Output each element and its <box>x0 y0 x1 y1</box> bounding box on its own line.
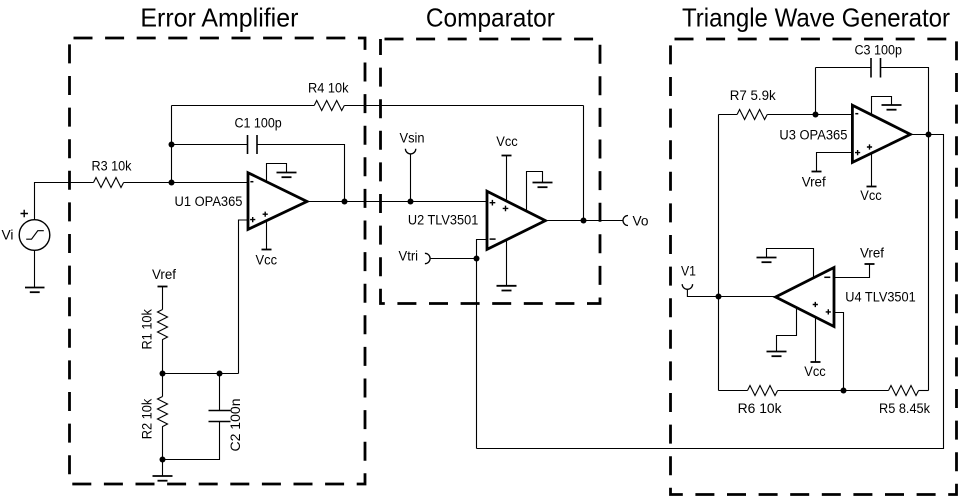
wire U3 V+ pin <box>871 152 873 186</box>
wire U4 V- pin <box>777 307 797 351</box>
svg-text:Vcc: Vcc <box>256 252 278 267</box>
svg-text:R7 5.9k: R7 5.9k <box>730 88 776 103</box>
wire U2 V+ pin <box>506 156 508 202</box>
wire Vtri feedback (triangle generator to comparator) <box>477 135 944 449</box>
comparator U4 TLV3501 (mirrored) <box>776 268 834 327</box>
wire R5 left to node <box>844 390 889 392</box>
terminal Vref (divider top) <box>158 286 168 288</box>
svg-text:Vref: Vref <box>152 267 176 282</box>
ground (divider bottom) <box>153 460 173 481</box>
svg-text:Vsin: Vsin <box>400 130 425 145</box>
resistor R1 <box>158 310 168 342</box>
ground (U2 negative supply) <box>497 286 517 291</box>
wire U3 non-inverting input to Vref <box>817 153 853 172</box>
ground (U3 negative supply) <box>882 105 902 110</box>
wire U2 shutdown pin <box>527 172 543 212</box>
node junction (U3 output) <box>926 132 932 138</box>
ground (U1 negative supply) <box>277 173 297 178</box>
svg-text:C3 100p: C3 100p <box>854 43 902 58</box>
wire C1 left <box>172 144 248 146</box>
op-amp U1 OPA365 <box>248 173 307 230</box>
wire U4 inverting input to Vref <box>834 264 870 278</box>
op-amp U3 OPA365 <box>852 105 910 162</box>
svg-text:R2 10k: R2 10k <box>140 399 155 440</box>
svg-text:R6 10k: R6 10k <box>738 401 782 416</box>
terminal Vo <box>623 216 628 226</box>
node junction (R1/R2) <box>160 371 166 377</box>
wire Vtri terminal to node <box>431 258 477 260</box>
svg-text:Vcc: Vcc <box>496 134 518 149</box>
node junction (R7 / C3 / U3-) <box>813 112 819 118</box>
node junction (Vsin tap) <box>408 199 414 205</box>
svg-text:Comparator: Comparator <box>426 3 555 33</box>
svg-text:C2 100n: C2 100n <box>228 399 243 452</box>
terminal Vref (U3) <box>812 171 822 173</box>
svg-text:Vo: Vo <box>633 214 649 229</box>
wire U4 shutdown pin <box>767 249 814 279</box>
wire divider node row <box>163 373 239 375</box>
wire to R4 <box>172 105 315 107</box>
wire Vref to R1 <box>162 287 164 310</box>
wire R4 to comparator output node <box>344 105 583 107</box>
wire R5 right to rail <box>919 390 929 392</box>
svg-text:V1: V1 <box>681 264 696 279</box>
capacitor C1 <box>248 135 258 154</box>
terminal Vref (U4) <box>865 263 875 265</box>
svg-text:Vref: Vref <box>860 245 884 260</box>
Error Amplifier section dashed border <box>70 38 366 484</box>
wire U1 output to U2 input <box>307 201 487 203</box>
svg-text:U1 OPA365: U1 OPA365 <box>175 194 243 209</box>
Triangle Wave Generator section dashed border <box>671 39 957 495</box>
resistor R2 <box>158 397 168 430</box>
Comparator section dashed border <box>381 39 601 304</box>
wire U3 V- pin <box>872 97 892 116</box>
svg-text:R1 10k: R1 10k <box>140 309 155 350</box>
wire C3 left <box>816 67 872 69</box>
wire Vi top to R3 <box>35 183 94 220</box>
wire C2 top stub <box>219 374 221 411</box>
wire Vsin to input node <box>410 154 412 201</box>
wire left rail to R7 <box>719 114 738 116</box>
node junction (R3 / C1 / U1-) <box>169 180 175 186</box>
node junction (V1 tap) <box>716 294 722 300</box>
svg-text:Error Amplifier: Error Amplifier <box>140 2 298 32</box>
comparator U2 TLV3501 <box>487 191 545 249</box>
node junction (R5/R6/U4+) <box>841 388 847 394</box>
terminal Vcc (U1) <box>262 249 272 251</box>
capacitor C2 <box>209 411 231 422</box>
wire R1 to R2 <box>162 342 164 397</box>
node junction (R2/C2 bottom) <box>160 457 166 463</box>
wire R6 right to node <box>778 390 844 392</box>
wire U1 V- pin <box>267 164 287 183</box>
wire R6 left to rail <box>719 390 748 392</box>
svg-text:U2 TLV3501: U2 TLV3501 <box>408 213 478 228</box>
wire U1 non-inverting input to divider <box>239 220 249 374</box>
wire R3 to U1 inverting input <box>124 182 248 184</box>
node junction (Vo / feedback) <box>581 218 587 224</box>
ground (below Vi) <box>25 250 45 292</box>
node junction (U1 output / C1) <box>342 199 348 205</box>
resistor R7 <box>737 110 767 120</box>
wire U3 output <box>910 134 928 136</box>
svg-text:Vi: Vi <box>2 228 14 243</box>
terminal Vtri <box>425 253 430 263</box>
wire U4 non-inverting input to R5/R6 node <box>834 313 844 391</box>
wire R2 to ground node <box>162 430 164 460</box>
wire U1 V+ pin <box>266 222 268 250</box>
wire feedback riser (R4 to Vo node) <box>583 106 585 221</box>
svg-text:Vref: Vref <box>802 175 826 190</box>
resistor R4 <box>314 101 344 111</box>
svg-text:R3 10k: R3 10k <box>92 159 132 174</box>
svg-text:Triangle Wave Generator: Triangle Wave Generator <box>682 3 950 33</box>
resistor R3 <box>94 178 124 188</box>
svg-text:U3 OPA365: U3 OPA365 <box>779 128 847 143</box>
node junction (C2 top) <box>217 371 223 377</box>
capacitor C3 <box>871 58 881 78</box>
wire U4 V+ pin <box>815 317 817 362</box>
wire U3 output down to R5 <box>928 135 930 391</box>
svg-text:R5 8.45k: R5 8.45k <box>879 401 930 416</box>
svg-text:Vcc: Vcc <box>804 364 826 379</box>
terminal Vcc (U4) <box>811 361 821 363</box>
wire C1 right to U1 output node <box>257 145 345 202</box>
wire U2 inverting input to Vtri node <box>477 240 488 449</box>
svg-text:U4 TLV3501: U4 TLV3501 <box>845 290 915 305</box>
wire left rail (R7/V1/R6) <box>718 115 720 391</box>
ground (U4 negative supply) <box>767 352 787 357</box>
node junction (C1 tap) <box>169 142 175 148</box>
svg-text:C1 100p: C1 100p <box>234 115 281 130</box>
wire V1 to U4 input node <box>687 290 775 297</box>
wire C3 right to U3 output <box>881 68 929 135</box>
wire C3 left riser to R7 node <box>815 68 817 115</box>
terminal Vcc (U3) <box>867 186 877 188</box>
voltage source Vi <box>19 210 50 251</box>
terminal Vsin <box>405 149 415 154</box>
wire R7 to U3 inverting input <box>767 114 852 116</box>
wire U2 V- pin <box>506 239 508 286</box>
svg-text:R4 10k: R4 10k <box>308 80 349 95</box>
ground (U2 shutdown) <box>533 183 553 188</box>
terminal V1 <box>682 284 692 289</box>
terminal Vcc (U2) <box>502 155 512 157</box>
resistor R6 <box>748 386 778 396</box>
svg-text:Vtri: Vtri <box>399 249 419 264</box>
wire riser to R4/C1 <box>171 106 173 183</box>
svg-text:Vcc: Vcc <box>860 188 882 203</box>
wire U2 output to Vo <box>546 220 623 222</box>
ground (U4 shutdown) <box>757 258 777 263</box>
wire C2 bottom to ground node <box>163 422 220 460</box>
node junction (Vtri) <box>474 256 480 262</box>
resistor R5 <box>889 386 919 396</box>
